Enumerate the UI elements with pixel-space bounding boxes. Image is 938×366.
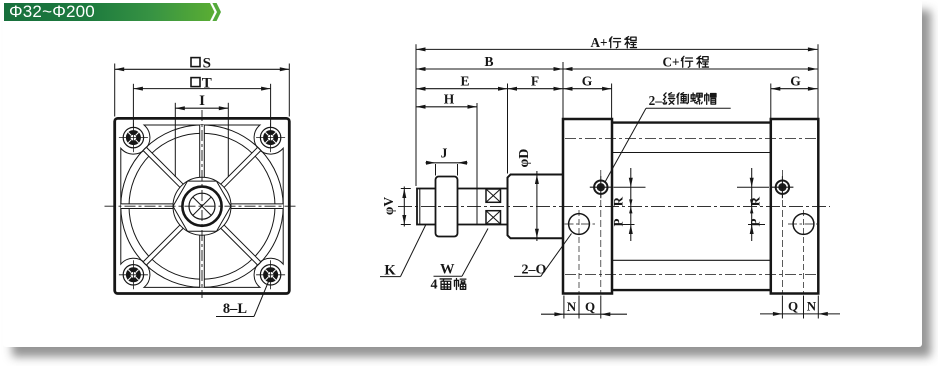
svg-text:N: N [807,299,817,314]
svg-text:Q: Q [585,299,595,314]
svg-text:E: E [460,74,469,89]
svg-text:R: R [611,196,626,206]
svg-text:C+: C+ [662,54,679,69]
svg-text:2–O: 2–O [522,262,547,277]
svg-text:I: I [199,93,205,109]
svg-text:G: G [582,74,593,89]
svg-text:G: G [790,74,801,89]
svg-text:P: P [611,218,626,226]
svg-text:S: S [203,55,211,71]
svg-text:T: T [202,75,212,91]
svg-text:N: N [567,299,577,314]
svg-text:8–L: 8–L [223,301,248,317]
svg-text:R: R [748,196,763,206]
svg-text:P: P [748,218,763,226]
svg-text:φD: φD [517,149,532,168]
svg-text:H: H [444,92,455,107]
svg-text:2–: 2– [649,93,663,108]
svg-text:J: J [441,146,448,161]
svg-text:F: F [531,74,539,89]
svg-text:W: W [440,261,455,277]
svg-text:4: 4 [431,278,438,293]
svg-text:φV: φV [381,197,396,215]
svg-text:A+: A+ [590,35,607,50]
svg-text:B: B [484,54,493,69]
svg-text:Q: Q [788,299,798,314]
